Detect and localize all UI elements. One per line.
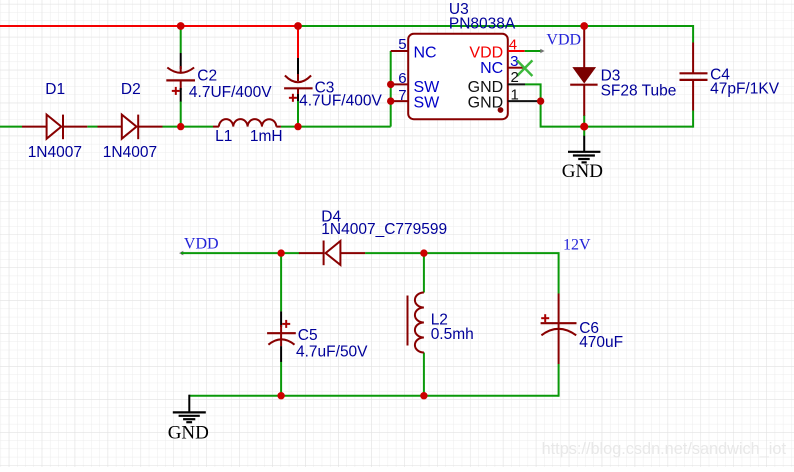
capacitor C4 (680, 43, 780, 111)
wire D4 anode lead junction (281, 252, 299, 254)
svg-text:C5: C5 (298, 327, 318, 344)
diode D3 (570, 26, 676, 116)
pin 4 VDD (469, 36, 524, 61)
inductor L1 (213, 119, 283, 145)
wire D1-D2 gap (87, 126, 97, 128)
wire C2 upper branch (180, 26, 182, 53)
capacitor C3 (284, 58, 382, 110)
wire L1 to left bus (281, 126, 391, 128)
wire VDD flag to D4 (181, 252, 281, 254)
wire C4 lower lead (692, 111, 694, 128)
wire C3 lower branch (297, 101, 299, 127)
svg-text:GND: GND (562, 161, 603, 182)
svg-text:5: 5 (398, 36, 406, 53)
pin 6 SW (391, 70, 440, 96)
pin 5 NC (391, 36, 437, 62)
wire top AC net (red) (0, 25, 298, 27)
svg-text:4.7uF/50V: 4.7uF/50V (296, 343, 368, 360)
junction dots top circuit (177, 22, 185, 30)
net flag VDD (top) (540, 32, 581, 54)
svg-text:7: 7 (398, 87, 406, 104)
svg-text:470uF: 470uF (579, 334, 623, 351)
wire bottom rail (189, 395, 558, 397)
stray dot at chip pin1 inner edge (498, 107, 504, 113)
diode D1 (22, 81, 87, 161)
wire C2 lower branch (180, 101, 182, 127)
svg-text:SF28 Tube: SF28 Tube (601, 83, 677, 100)
wire L2 upper (423, 253, 425, 292)
capacitor C6 (541, 294, 624, 365)
svg-text:1mH: 1mH (250, 128, 283, 145)
wire D2 to L1 (163, 126, 214, 128)
svg-text:1: 1 (511, 87, 519, 104)
pin 1 GND (468, 87, 538, 112)
svg-text:SW: SW (414, 94, 441, 111)
wire rail D3 to C4 (584, 126, 693, 128)
op-amp U3 chip body (408, 1, 516, 119)
wire C4 upper lead (692, 25, 694, 43)
net flag VDD (bottom left) (179, 236, 219, 256)
svg-text:D2: D2 (121, 81, 141, 98)
svg-text:L1: L1 (215, 128, 232, 145)
svg-text:0.5mh: 0.5mh (431, 326, 474, 343)
wire C3 upper branch (red) (297, 26, 299, 58)
svg-text:NC: NC (480, 60, 503, 77)
svg-text:1N4007_C779599: 1N4007_C779599 (321, 221, 447, 238)
svg-text:C2: C2 (197, 67, 217, 84)
pin 2 GND (468, 69, 525, 96)
pin 3 NC with no-connect cross (480, 53, 532, 77)
pin 7 SW (391, 87, 440, 112)
svg-text:https://blog.csdn.net/sandwich: https://blog.csdn.net/sandwich_iot (542, 440, 787, 458)
wire C5 upper (280, 253, 282, 311)
svg-text:4.7UF/400V: 4.7UF/400V (299, 93, 382, 110)
svg-text:VDD: VDD (546, 32, 581, 49)
svg-text:1N4007: 1N4007 (28, 144, 82, 161)
wire L2 junction to 12V corner and down (424, 253, 559, 293)
capacitor C5 (267, 311, 368, 362)
junction dots bottom circuit (277, 249, 284, 256)
svg-text:6: 6 (398, 70, 406, 87)
wire D3 lower stub (583, 115, 585, 127)
svg-text:12V: 12V (563, 236, 591, 253)
wire pin4 to VDD flag (525, 50, 541, 52)
ground symbol (bottom circuit) (168, 395, 209, 444)
wire GND stub top circuit (583, 127, 585, 137)
svg-text:NC: NC (414, 45, 437, 62)
wire C6 lower (558, 364, 560, 397)
svg-text:4: 4 (509, 36, 517, 53)
svg-text:VDD: VDD (184, 236, 219, 253)
wire pin1 node down to rail (541, 101, 585, 127)
svg-text:GND: GND (468, 94, 504, 111)
wire C5 lower (280, 362, 282, 396)
wire L2 lower (423, 353, 425, 396)
svg-text:D1: D1 (45, 81, 65, 98)
svg-text:47pF/1KV: 47pF/1KV (710, 80, 780, 97)
svg-text:PN8038A: PN8038A (449, 15, 516, 32)
wire left rail entry (0, 126, 22, 128)
diode D4 (299, 208, 447, 265)
svg-text:2: 2 (511, 69, 519, 86)
diode D2 (98, 81, 163, 161)
svg-text:1N4007: 1N4007 (103, 144, 157, 161)
ground symbol (top circuit) (562, 136, 603, 182)
inductor L2 (408, 293, 474, 353)
svg-text:4.7UF/400V: 4.7UF/400V (189, 84, 272, 101)
wire pin2 to pin1 corner (525, 84, 541, 101)
capacitor C2 (166, 53, 272, 102)
svg-text:GND: GND (168, 423, 209, 444)
wire top net green from C3 junction to C4 corner (298, 25, 693, 27)
wire left bus vertical pins 5-6-7 (390, 51, 392, 127)
wire D4 to L2 junction (365, 252, 424, 254)
svg-text:VDD: VDD (469, 45, 503, 62)
